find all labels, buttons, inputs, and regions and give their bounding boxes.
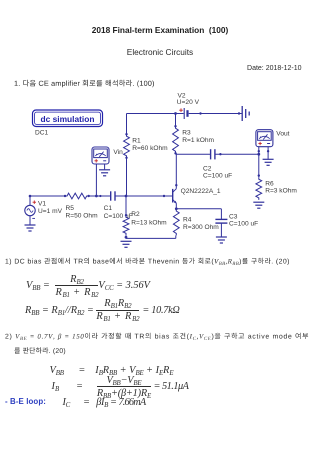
capacitor C3 — [215, 219, 227, 223]
wire Vout minus terminal — [267, 147, 269, 159]
text problem 1 heading — [15, 80, 154, 88]
wire V1 top — [29, 196, 31, 205]
wire C2 to Vout node — [215, 153, 258, 155]
wire R5 to C1 — [89, 195, 111, 197]
node V2 junction — [174, 112, 177, 115]
svg-text:R=300 Ohm: R=300 Ohm — [183, 224, 219, 231]
wire emitter — [175, 203, 177, 209]
node emitter — [175, 207, 178, 210]
wire collector node to C2 — [176, 153, 211, 155]
wire bottom rail — [126, 237, 176, 239]
resistor R6 — [256, 177, 262, 200]
svg-text:Vin: Vin — [113, 149, 123, 156]
svg-text:U=1 mV: U=1 mV — [38, 208, 63, 215]
node base R1 R2 — [125, 195, 128, 198]
svg-text:U=20 V: U=20 V — [177, 99, 200, 106]
capacitor C2 — [211, 149, 222, 159]
voltmeter Vout — [256, 130, 273, 147]
node Vin tap — [95, 195, 98, 198]
wire emitter to C3 — [176, 208, 221, 210]
resistor R3 — [173, 126, 179, 154]
svg-text:C=100 uF: C=100 uF — [229, 220, 258, 227]
wire Vout plus terminal — [258, 147, 260, 155]
voltage source V2 — [179, 108, 202, 119]
text question 1 — [6, 258, 290, 265]
subtitle — [0, 47, 320, 57]
wire Vin minus terminal — [104, 164, 106, 169]
svg-text:V1: V1 — [38, 201, 46, 208]
wire V2 junction to R3 — [175, 114, 177, 127]
resistor R2 — [123, 215, 129, 235]
wire C3 to ground — [220, 223, 222, 237]
ground top right — [242, 106, 249, 121]
ground under Vin — [99, 170, 110, 176]
wire top rail right — [189, 113, 242, 115]
svg-text:C=100 uF: C=100 uF — [203, 172, 232, 179]
wire collector — [175, 153, 177, 188]
text question 2 line 1 — [5, 333, 308, 340]
title — [0, 25, 320, 35]
wire Vin plus terminal down — [95, 164, 97, 196]
label B-E loop — [5, 397, 46, 406]
svg-text:Q2N2222A_1: Q2N2222A_1 — [181, 188, 221, 195]
resistor R5 — [65, 193, 90, 199]
equation 2: RBB — [25, 299, 180, 323]
svg-text:R=50 Ohm: R=50 Ohm — [66, 213, 99, 220]
ac source V1 — [25, 201, 36, 219]
node bottom rail left — [125, 236, 128, 239]
equation 3: VBB loop — [50, 365, 174, 376]
text question 2 line 2 — [14, 347, 65, 354]
equation 1: VBB — [26, 273, 150, 298]
voltmeter Vin — [92, 147, 109, 164]
capacitor C1 — [111, 191, 115, 200]
ground bottom rail — [121, 241, 132, 247]
svg-text:R3: R3 — [182, 130, 191, 137]
wire top rail left — [127, 114, 184, 135]
wire V1 bottom — [29, 216, 31, 225]
svg-text:DC1: DC1 — [35, 129, 49, 136]
svg-text:C1: C1 — [104, 205, 113, 212]
wire base node to R2 — [125, 196, 127, 215]
resistor R1 — [124, 133, 130, 159]
date — [247, 65, 301, 72]
svg-text:R4: R4 — [183, 217, 192, 224]
svg-text:R5: R5 — [66, 205, 75, 212]
svg-text:R1: R1 — [132, 137, 141, 144]
equation 4: IB — [52, 375, 189, 398]
wire Vout node to R6 — [258, 154, 260, 177]
svg-text:R=3 kOhm: R=3 kOhm — [265, 187, 297, 194]
svg-text:Vout: Vout — [276, 131, 289, 138]
svg-text:R=60 kOhm: R=60 kOhm — [132, 145, 168, 152]
node Vout — [257, 153, 260, 156]
resistor R4 — [173, 209, 179, 235]
ground under C3 — [216, 237, 227, 243]
equation 5: IC — [63, 397, 146, 408]
dc simulation box DC1 — [33, 110, 103, 127]
ground under Vout — [263, 159, 274, 165]
ground under V1 — [25, 225, 36, 231]
svg-text:R2: R2 — [131, 211, 140, 218]
wire R1 to base node — [126, 158, 128, 196]
svg-text:R=1 kOhm: R=1 kOhm — [182, 137, 214, 144]
svg-text:R=13 kOhm: R=13 kOhm — [131, 220, 167, 227]
wire C1 to base — [115, 195, 172, 197]
svg-text:dc simulation: dc simulation — [41, 114, 95, 124]
transistor Q1 Q2N2222A_1 — [173, 189, 177, 204]
ground under R6 — [253, 202, 264, 208]
